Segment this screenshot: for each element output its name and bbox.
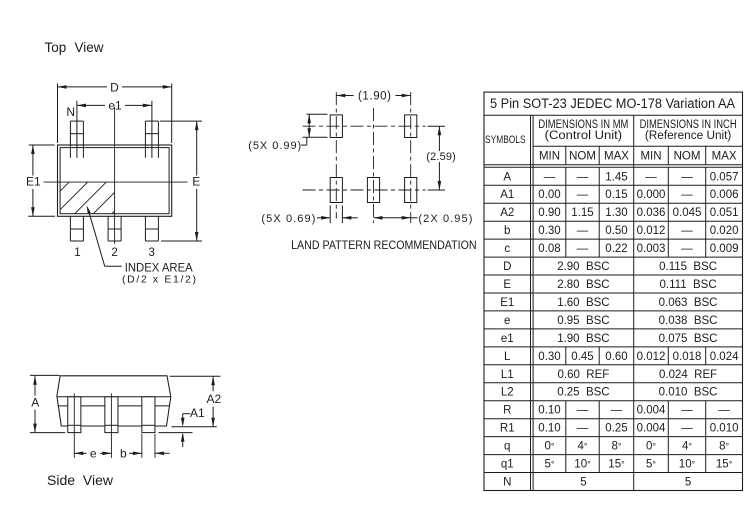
dimension e1 bbox=[76, 101, 78, 110]
svg-text:5: 5 bbox=[685, 477, 691, 489]
svg-text:1.60 BSC: 1.60 BSC bbox=[557, 297, 609, 309]
land centerline column 2 bbox=[373, 108, 375, 223]
svg-text:0.15: 0.15 bbox=[605, 189, 627, 201]
svg-text:0.00: 0.00 bbox=[538, 189, 560, 201]
land pad bottom right bbox=[405, 178, 417, 203]
dimension (2X 0.95) bbox=[374, 217, 411, 219]
svg-text:0.90: 0.90 bbox=[538, 207, 560, 219]
table sub-column rules data bbox=[565, 167, 567, 257]
top pin 4 bbox=[145, 120, 158, 122]
land pad top left bbox=[330, 115, 342, 138]
bottom pin 1 bbox=[69, 216, 71, 241]
svg-text:0.012: 0.012 bbox=[637, 225, 666, 237]
svg-text:—: — bbox=[681, 405, 693, 417]
svg-text:b: b bbox=[120, 446, 127, 460]
svg-text:0.25: 0.25 bbox=[605, 423, 627, 435]
svg-text:q1: q1 bbox=[501, 459, 514, 471]
side lead 3 bbox=[142, 397, 155, 433]
svg-text:—: — bbox=[681, 171, 693, 183]
svg-text:0.95 BSC: 0.95 BSC bbox=[557, 315, 609, 327]
svg-text:15°: 15° bbox=[608, 459, 625, 471]
svg-text:—: — bbox=[611, 405, 623, 417]
land pad top right bbox=[405, 115, 417, 138]
svg-text:2: 2 bbox=[111, 247, 117, 259]
land centerline top row bbox=[303, 125, 426, 127]
svg-text:0.075 BSC: 0.075 BSC bbox=[659, 333, 718, 345]
svg-text:4°: 4° bbox=[577, 441, 587, 453]
svg-text:0.020: 0.020 bbox=[710, 225, 739, 237]
dimension E1 bbox=[29, 144, 55, 146]
land centerline column 1 bbox=[335, 92, 337, 218]
svg-text:0.009: 0.009 bbox=[710, 243, 739, 255]
side body parting line bbox=[57, 396, 171, 398]
dimension A2 bbox=[170, 375, 221, 377]
svg-text:0.003: 0.003 bbox=[637, 243, 666, 255]
svg-text:8°: 8° bbox=[719, 441, 729, 453]
svg-text:1.30: 1.30 bbox=[605, 207, 627, 219]
table outer border bbox=[484, 92, 743, 490]
svg-text:0.057: 0.057 bbox=[710, 171, 739, 183]
side body outline bbox=[57, 376, 171, 426]
table mm inch divider bbox=[633, 115, 635, 490]
table title separator bbox=[484, 114, 743, 116]
svg-text:—: — bbox=[577, 189, 589, 201]
svg-text:1.90 BSC: 1.90 BSC bbox=[557, 333, 609, 345]
svg-text:1.45: 1.45 bbox=[605, 171, 627, 183]
dimension (5X 0.69) bbox=[329, 205, 331, 223]
svg-text:LAND PATTERN RECOMMENDATION: LAND PATTERN RECOMMENDATION bbox=[291, 238, 477, 252]
svg-text:MAX: MAX bbox=[604, 150, 629, 162]
svg-text:0°: 0° bbox=[544, 441, 554, 453]
svg-text:5: 5 bbox=[580, 477, 586, 489]
dimension A bbox=[30, 374, 60, 376]
land centerline bottom row bbox=[303, 189, 426, 191]
svg-text:e1: e1 bbox=[108, 99, 122, 113]
package body outline bbox=[58, 145, 172, 216]
svg-text:0.25 BSC: 0.25 BSC bbox=[557, 387, 609, 399]
svg-text:5°: 5° bbox=[544, 459, 554, 471]
svg-text:A: A bbox=[503, 171, 511, 183]
svg-text:—: — bbox=[544, 171, 556, 183]
svg-text:A: A bbox=[31, 395, 39, 409]
bottom pin 2 bbox=[107, 216, 109, 241]
svg-text:E1: E1 bbox=[500, 297, 514, 309]
svg-text:10°: 10° bbox=[679, 459, 696, 471]
svg-text:0.111 BSC: 0.111 BSC bbox=[660, 279, 717, 291]
svg-text:—: — bbox=[577, 171, 589, 183]
dimension e (side) bbox=[74, 452, 86, 454]
svg-text:0.45: 0.45 bbox=[571, 351, 593, 363]
svg-text:1.15: 1.15 bbox=[571, 207, 593, 219]
svg-text:(2X 0.95): (2X 0.95) bbox=[418, 213, 472, 225]
svg-text:—: — bbox=[577, 225, 589, 237]
side lead 2 bbox=[105, 397, 118, 433]
index area leader bbox=[87, 205, 91, 214]
land pad bottom left bbox=[330, 178, 342, 203]
svg-text:0.045: 0.045 bbox=[673, 207, 702, 219]
svg-text:R: R bbox=[503, 405, 511, 417]
svg-text:MIN: MIN bbox=[539, 150, 560, 162]
svg-text:A1: A1 bbox=[190, 406, 205, 420]
svg-text:0.000: 0.000 bbox=[637, 189, 666, 201]
top pin 5 bbox=[70, 120, 83, 122]
svg-text:E: E bbox=[192, 175, 200, 189]
body horizontal centerline bbox=[44, 181, 188, 183]
svg-text:e: e bbox=[504, 315, 510, 327]
svg-text:b: b bbox=[504, 225, 510, 237]
svg-text:0.60 REF: 0.60 REF bbox=[558, 369, 610, 381]
svg-text:—: — bbox=[681, 189, 693, 201]
svg-text:0.006: 0.006 bbox=[710, 189, 739, 201]
svg-text:0.004: 0.004 bbox=[637, 405, 666, 417]
svg-text:0.036: 0.036 bbox=[637, 207, 666, 219]
svg-text:0.024 REF: 0.024 REF bbox=[659, 369, 717, 381]
svg-text:e1: e1 bbox=[501, 333, 514, 345]
dimension E bbox=[160, 120, 202, 122]
side body lower line bbox=[58, 405, 170, 407]
svg-text:NOM: NOM bbox=[569, 150, 596, 162]
svg-text:—: — bbox=[681, 243, 693, 255]
svg-text:—: — bbox=[645, 171, 657, 183]
svg-text:Top View: Top View bbox=[45, 40, 104, 55]
table header double rule bbox=[484, 164, 743, 166]
table sub-column rules header bbox=[565, 146, 567, 164]
svg-text:5 Pin SOT-23 JEDEC MO-178 Vari: 5 Pin SOT-23 JEDEC MO-178 Variation AA bbox=[490, 96, 735, 111]
svg-text:(2.59): (2.59) bbox=[426, 151, 456, 163]
svg-text:(1.90): (1.90) bbox=[358, 90, 391, 102]
svg-text:MIN: MIN bbox=[640, 150, 661, 162]
svg-text:2.80 BSC: 2.80 BSC bbox=[557, 279, 609, 291]
dimension (2.59) bbox=[428, 125, 446, 127]
body vertical centerline bbox=[114, 107, 116, 244]
svg-text:2.90 BSC: 2.90 BSC bbox=[557, 261, 609, 273]
svg-text:4°: 4° bbox=[682, 441, 692, 453]
svg-text:15°: 15° bbox=[716, 459, 733, 471]
svg-text:(D/2 x E1/2): (D/2 x E1/2) bbox=[122, 274, 196, 286]
svg-text:—: — bbox=[681, 423, 693, 435]
svg-text:0.063 BSC: 0.063 BSC bbox=[659, 297, 718, 309]
svg-text:0.024: 0.024 bbox=[710, 351, 739, 363]
svg-text:—: — bbox=[718, 405, 730, 417]
svg-text:0.018: 0.018 bbox=[673, 351, 702, 363]
svg-text:SYMBOLS: SYMBOLS bbox=[485, 134, 526, 146]
svg-text:A2: A2 bbox=[500, 207, 514, 219]
svg-text:0.010 BSC: 0.010 BSC bbox=[659, 387, 718, 399]
svg-text:(5X 0.69): (5X 0.69) bbox=[261, 213, 315, 225]
svg-text:—: — bbox=[577, 423, 589, 435]
side lead 3 edge extensions bbox=[141, 434, 143, 458]
side body bottom edge bbox=[61, 425, 166, 427]
svg-text:c: c bbox=[504, 243, 510, 255]
svg-text:0.010: 0.010 bbox=[710, 423, 739, 435]
svg-text:e: e bbox=[90, 446, 97, 460]
dimension (1.90) bbox=[336, 95, 353, 97]
svg-text:3: 3 bbox=[148, 247, 154, 259]
svg-text:0.038 BSC: 0.038 BSC bbox=[659, 315, 718, 327]
svg-text:Side View: Side View bbox=[47, 472, 114, 488]
svg-text:L1: L1 bbox=[501, 369, 514, 381]
svg-text:10°: 10° bbox=[574, 459, 591, 471]
svg-text:A1: A1 bbox=[500, 189, 514, 201]
svg-text:0.50: 0.50 bbox=[605, 225, 627, 237]
svg-text:0°: 0° bbox=[646, 441, 656, 453]
land pad bottom middle bbox=[367, 178, 379, 203]
svg-text:1: 1 bbox=[74, 247, 80, 259]
svg-text:N: N bbox=[503, 477, 511, 489]
svg-text:L2: L2 bbox=[501, 387, 514, 399]
land centerline column 3 bbox=[410, 92, 412, 223]
svg-text:INDEX AREA: INDEX AREA bbox=[125, 262, 193, 274]
table row rules bbox=[484, 184, 743, 186]
svg-text:0.60: 0.60 bbox=[605, 351, 627, 363]
svg-text:(Reference Unit): (Reference Unit) bbox=[645, 130, 732, 142]
svg-text:D: D bbox=[110, 81, 119, 95]
svg-text:0.004: 0.004 bbox=[637, 423, 666, 435]
dimension (5X 0.99) bbox=[307, 113, 328, 115]
svg-text:(Control Unit): (Control Unit) bbox=[545, 130, 623, 142]
svg-text:E: E bbox=[503, 279, 511, 291]
svg-text:L: L bbox=[504, 351, 511, 363]
side lead centerline 2 bbox=[110, 393, 112, 458]
bottom pin 3 bbox=[144, 216, 146, 241]
svg-text:0.30: 0.30 bbox=[538, 351, 560, 363]
svg-text:0.08: 0.08 bbox=[538, 243, 560, 255]
side lead centerline 1 bbox=[73, 393, 75, 458]
svg-text:A2: A2 bbox=[207, 392, 222, 406]
svg-text:5°: 5° bbox=[646, 459, 656, 471]
svg-text:—: — bbox=[681, 225, 693, 237]
table header group separator bbox=[533, 145, 742, 147]
svg-text:0.22: 0.22 bbox=[605, 243, 627, 255]
svg-text:0.012: 0.012 bbox=[637, 351, 666, 363]
svg-text:(5X 0.99): (5X 0.99) bbox=[248, 140, 301, 152]
svg-text:D: D bbox=[503, 261, 511, 273]
svg-text:NOM: NOM bbox=[674, 150, 701, 162]
side lead 1 bbox=[68, 397, 81, 433]
dimension A1 bbox=[182, 414, 184, 425]
svg-text:0.051: 0.051 bbox=[710, 207, 739, 219]
svg-text:E1: E1 bbox=[26, 175, 41, 189]
dimension D bbox=[57, 84, 59, 144]
svg-text:—: — bbox=[577, 243, 589, 255]
svg-text:R1: R1 bbox=[500, 423, 515, 435]
svg-text:q: q bbox=[504, 441, 510, 453]
svg-text:0.10: 0.10 bbox=[538, 405, 560, 417]
svg-text:MAX: MAX bbox=[712, 150, 737, 162]
table symbols double rule bbox=[530, 115, 532, 490]
svg-text:8°: 8° bbox=[611, 441, 621, 453]
svg-text:0.30: 0.30 bbox=[538, 225, 560, 237]
svg-text:N: N bbox=[66, 105, 75, 119]
svg-text:0.10: 0.10 bbox=[538, 423, 560, 435]
svg-text:—: — bbox=[577, 405, 589, 417]
svg-text:0.115 BSC: 0.115 BSC bbox=[659, 261, 717, 273]
